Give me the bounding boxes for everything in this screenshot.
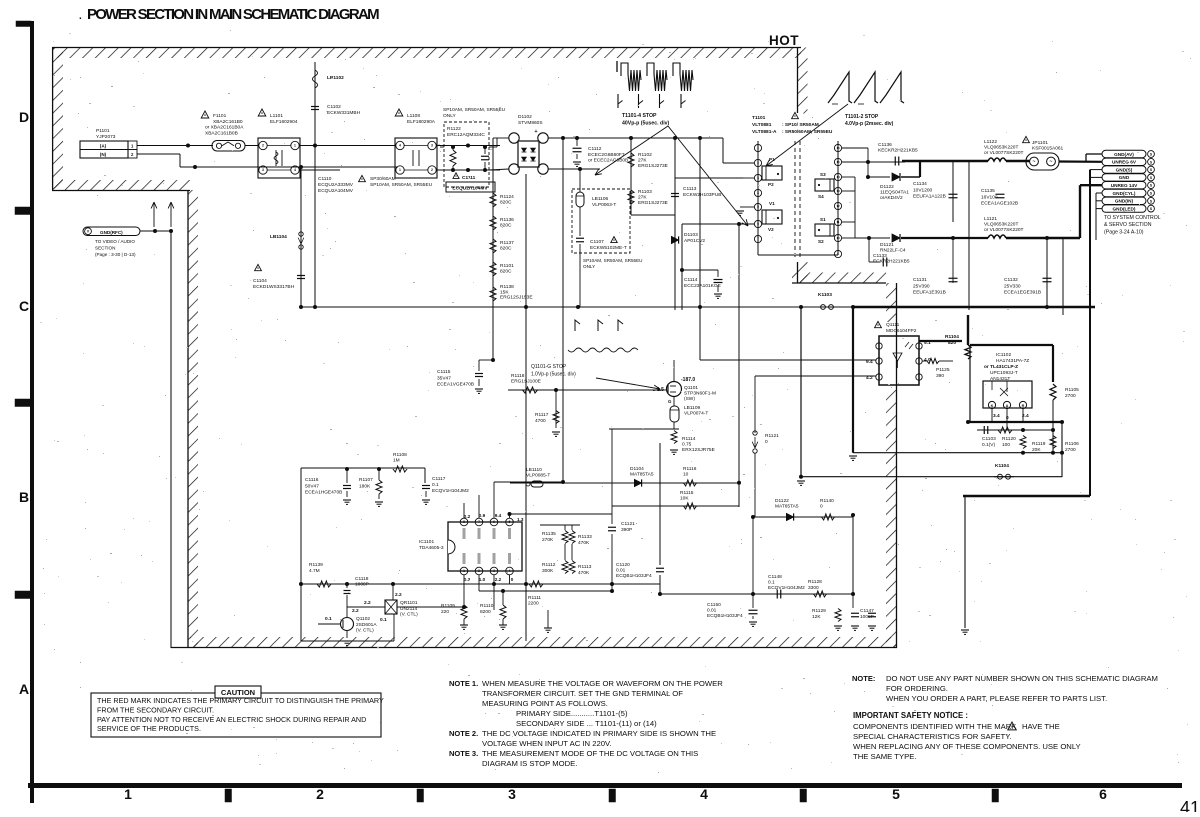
svg-text:270K: 270K	[542, 537, 554, 543]
svg-text:or TL431CLP-Z: or TL431CLP-Z	[984, 364, 1018, 370]
svg-text:C1135: C1135	[981, 188, 995, 194]
svg-text:ONLY: ONLY	[583, 264, 595, 269]
svg-text:UNREG 6V: UNREG 6V	[1112, 160, 1137, 165]
svg-text:ECQU2R104MV: ECQU2R104MV	[452, 186, 488, 192]
svg-text:UPC1093J-T: UPC1093J-T	[990, 370, 1018, 376]
svg-text:8: 8	[463, 520, 465, 524]
svg-text:R1124: R1124	[500, 194, 514, 200]
svg-text:NOTE:: NOTE:	[852, 674, 875, 683]
svg-text:820: 820	[948, 340, 956, 346]
svg-text:ECQB1H103JF4: ECQB1H103JF4	[616, 573, 652, 579]
svg-text:or VL0077SK220T: or VL0077SK220T	[984, 227, 1024, 233]
svg-text:16: 16	[836, 146, 840, 150]
svg-text:ELF1602904: ELF1602904	[270, 119, 298, 125]
svg-text:ECKW2H103PUB: ECKW2H103PUB	[683, 192, 721, 198]
svg-text:3: 3	[431, 144, 433, 148]
svg-text:COMPONENTS IDENTIFIED WITH THE: COMPONENTS IDENTIFIED WITH THE MARK	[853, 722, 1017, 731]
svg-text:2: 2	[431, 168, 433, 172]
svg-text:1: 1	[294, 144, 296, 148]
svg-text:1: 1	[463, 569, 465, 573]
svg-text:DIAGRAM IS STOP MODE.: DIAGRAM IS STOP MODE.	[482, 759, 577, 768]
svg-text:R1138: R1138	[500, 284, 514, 290]
svg-text:R1129: R1129	[812, 608, 826, 614]
svg-text:9.4: 9.4	[495, 513, 502, 518]
svg-text:R1133: R1133	[578, 534, 592, 540]
svg-text:7: 7	[757, 237, 759, 241]
svg-text:R1121: R1121	[765, 433, 779, 439]
svg-text:P1: P1	[769, 157, 775, 162]
svg-text:100: 100	[1002, 442, 1010, 448]
svg-text:(Page 3-24 A-10): (Page 3-24 A-10)	[1104, 229, 1144, 235]
svg-text:WHEN MEASURE THE VOLTAGE OR WA: WHEN MEASURE THE VOLTAGE OR WAVEFORM ON …	[482, 679, 723, 688]
svg-text:10: 10	[683, 472, 689, 478]
svg-text:3.4: 3.4	[993, 413, 1000, 419]
svg-text:GND(CYL): GND(CYL)	[1113, 191, 1136, 196]
svg-text:R1118: R1118	[511, 373, 525, 379]
svg-text:FOR ORDERING.: FOR ORDERING.	[886, 684, 948, 693]
svg-text:(N): (N)	[100, 152, 107, 157]
svg-text:R1139: R1139	[309, 562, 323, 568]
svg-text:JP1101: JP1101	[1032, 140, 1048, 146]
svg-text:8200: 8200	[480, 609, 491, 615]
svg-text:SP10AM, SR50AM, SR55EU: SP10AM, SR50AM, SR55EU	[443, 107, 506, 113]
svg-text:or VL0077SK220T: or VL0077SK220T	[984, 150, 1024, 156]
svg-text:(SW): (SW)	[684, 396, 695, 402]
svg-text:ERX12SJR75E: ERX12SJR75E	[682, 447, 715, 453]
svg-text:7: 7	[478, 520, 480, 524]
svg-text:4: 4	[294, 168, 296, 172]
svg-text:THE SAME TYPE.: THE SAME TYPE.	[853, 752, 917, 761]
svg-text:VLP0085-T: VLP0085-T	[526, 473, 550, 479]
svg-text:0.1(V): 0.1(V)	[982, 442, 995, 448]
svg-text:470K: 470K	[578, 540, 590, 546]
svg-text:6: 6	[493, 520, 495, 524]
svg-text:GND(S): GND(S)	[1116, 167, 1133, 172]
svg-text:TRANSFORMER CIRCUIT. SET TH: TRANSFORMER CIRCUIT. SET THE GND TERMINA…	[482, 689, 683, 698]
svg-text:RN22LF-C4: RN22LF-C4	[880, 248, 906, 254]
svg-text:PRIMARY SIDE...........T1101-(: PRIMARY SIDE...........T1101-(5)	[516, 709, 628, 718]
svg-text:0.01: 0.01	[616, 568, 626, 574]
svg-text:C1150: C1150	[707, 602, 721, 608]
svg-text:D1102: D1102	[518, 114, 532, 120]
svg-text:SP30/60AM: SP30/60AM	[370, 176, 396, 182]
svg-text:2200: 2200	[528, 601, 539, 607]
svg-text:15K: 15K	[500, 289, 509, 295]
svg-text:orAKD4V2: orAKD4V2	[880, 195, 903, 201]
svg-text:THE RED MARK INDICATES THE PRI: THE RED MARK INDICATES THE PRIMARY CIRCU…	[97, 696, 384, 705]
svg-text:27K: 27K	[638, 195, 647, 201]
svg-text:-187.0: -187.0	[681, 377, 695, 383]
svg-text:D1103: D1103	[684, 232, 698, 238]
svg-text:Q1101: Q1101	[684, 385, 698, 391]
svg-text:820C: 820C	[500, 200, 512, 206]
svg-text:ECEA1AGE102B: ECEA1AGE102B	[981, 201, 1018, 207]
svg-text:LB1106: LB1106	[592, 196, 609, 202]
svg-text:EEUFA1A122B: EEUFA1A122B	[913, 194, 946, 200]
svg-text:ECKW331MBH: ECKW331MBH	[327, 110, 361, 116]
svg-text:K1104: K1104	[995, 463, 1009, 469]
svg-text:P2: P2	[768, 182, 774, 187]
svg-text:AP01CV2: AP01CV2	[684, 238, 705, 244]
svg-text:S4: S4	[818, 194, 824, 199]
svg-text:4.0Vp-p (2msec. div): 4.0Vp-p (2msec. div)	[845, 121, 894, 127]
svg-text:Q1102: Q1102	[356, 616, 370, 622]
svg-text:27K: 27K	[638, 158, 647, 164]
svg-text:~: ~	[1033, 159, 1036, 165]
svg-text:ERG1SJ273E: ERG1SJ273E	[638, 163, 668, 169]
svg-text:1M: 1M	[393, 458, 400, 464]
svg-text:0.1: 0.1	[768, 579, 775, 585]
svg-text:POWER SECTION IN MAIN SCHEMATI: POWER SECTION IN MAIN SCHEMATIC DIAGRAM	[87, 6, 379, 23]
svg-text:0.1: 0.1	[325, 616, 332, 622]
svg-text:VLQ0653K220T: VLQ0653K220T	[984, 222, 1018, 228]
svg-text:EEUFA1E391B: EEUFA1E391B	[913, 290, 946, 296]
svg-text:C1112: C1112	[588, 146, 602, 152]
svg-text:ERG1SJ273E: ERG1SJ273E	[638, 200, 668, 206]
svg-text:2.2: 2.2	[495, 577, 502, 582]
svg-text:F1101: F1101	[213, 113, 227, 119]
svg-text:10V1200: 10V1200	[913, 187, 933, 193]
svg-text:ECEA1EGE391B: ECEA1EGE391B	[1004, 290, 1041, 296]
svg-text:ECQV1H104JM2: ECQV1H104JM2	[432, 488, 469, 494]
svg-text:R1128: R1128	[808, 579, 822, 585]
svg-text:A: A	[19, 681, 29, 697]
svg-text:C1133: C1133	[873, 253, 887, 259]
svg-text:R1111: R1111	[528, 595, 541, 601]
svg-text:L1122: L1122	[984, 139, 997, 145]
svg-text:SERVICE OF THE PRODUCTS.: SERVICE OF THE PRODUCTS.	[97, 724, 201, 733]
svg-text:R1119: R1119	[1032, 441, 1046, 447]
svg-text:A: A	[1006, 404, 1009, 408]
svg-text:VLP0063-T: VLP0063-T	[592, 202, 616, 208]
svg-text:LB1102: LB1102	[327, 75, 344, 81]
svg-text:XBA2C161B0B: XBA2C161B0B	[205, 130, 238, 136]
svg-text:LB1104: LB1104	[270, 234, 287, 240]
svg-text:4.7M: 4.7M	[309, 568, 320, 574]
svg-text:R1104: R1104	[945, 334, 959, 340]
svg-text:TO SYSTEM CONTROL: TO SYSTEM CONTROL	[1104, 215, 1161, 221]
svg-text:3: 3	[508, 786, 516, 802]
svg-text:1.0: 1.0	[479, 577, 486, 582]
svg-text:Q1111: Q1111	[886, 322, 900, 328]
svg-text:1.0Vp-p (5usec. div): 1.0Vp-p (5usec. div)	[531, 371, 576, 377]
svg-text:390P: 390P	[621, 527, 632, 533]
svg-text:ECEA1VGE470B: ECEA1VGE470B	[437, 382, 474, 388]
svg-text:MDC6104FP2: MDC6104FP2	[886, 328, 917, 334]
svg-text:C1117: C1117	[432, 476, 446, 482]
svg-text:ECEA1HGE470B: ECEA1HGE470B	[305, 490, 342, 496]
svg-text:3: 3	[493, 569, 495, 573]
svg-text:FROM THE SECONDARY CIRCUIT.: FROM THE SECONDARY CIRCUIT.	[97, 705, 214, 714]
svg-text:6: 6	[757, 222, 759, 226]
svg-text:ECKW5102ME-T: ECKW5102ME-T	[590, 245, 627, 251]
svg-text:1: 1	[124, 786, 132, 802]
svg-text:HAVE THE: HAVE THE	[1022, 722, 1060, 731]
svg-text:C1110: C1110	[318, 176, 332, 182]
svg-text:2SD601A: 2SD601A	[356, 622, 377, 628]
svg-text:R1116: R1116	[683, 466, 697, 472]
svg-text:C1132: C1132	[1004, 277, 1018, 283]
svg-text:LB1110: LB1110	[526, 467, 542, 473]
svg-text:2: 2	[316, 786, 324, 802]
svg-text:VLT0881: VLT0881	[752, 122, 772, 128]
svg-text:11: 11	[836, 220, 840, 224]
svg-text:3300: 3300	[808, 585, 819, 591]
svg-text:2: 2	[757, 161, 759, 165]
svg-text:2700: 2700	[1065, 447, 1076, 453]
svg-text:R1102: R1102	[638, 152, 652, 158]
svg-text:C1115: C1115	[437, 369, 451, 375]
svg-text:820C: 820C	[500, 223, 512, 229]
svg-text:: SR50/60AM, SR55EU: : SR50/60AM, SR55EU	[782, 129, 833, 135]
svg-text:ELF180290A: ELF180290A	[407, 119, 436, 125]
svg-text:2: 2	[262, 144, 264, 148]
svg-text:S3: S3	[820, 172, 826, 177]
svg-text:R: R	[1022, 404, 1025, 408]
svg-text:IC1102: IC1102	[996, 352, 1011, 358]
svg-text:C1107: C1107	[590, 239, 604, 245]
svg-text:IC1101: IC1101	[419, 539, 434, 545]
svg-text:K: K	[991, 404, 994, 408]
svg-text:TDA4605-3: TDA4605-3	[419, 545, 444, 551]
svg-text:+: +	[534, 129, 537, 135]
svg-text:0.9: 0.9	[479, 513, 486, 518]
svg-text:R1112: R1112	[542, 562, 556, 568]
svg-text:25V390: 25V390	[913, 283, 930, 289]
svg-text:C1114: C1114	[684, 277, 698, 283]
svg-text:C1102: C1102	[327, 104, 341, 110]
svg-text:2700: 2700	[1065, 393, 1076, 399]
svg-text:390: 390	[936, 373, 944, 379]
svg-text:5: 5	[509, 520, 511, 524]
svg-text:XBA2C161B0: XBA2C161B0	[213, 119, 243, 125]
svg-text:4: 4	[700, 786, 708, 802]
svg-text:R1120: R1120	[1002, 436, 1016, 442]
svg-text:C1121: C1121	[621, 521, 635, 527]
svg-text:R1101: R1101	[500, 263, 514, 269]
svg-text:or XBA2C161B0A: or XBA2C161B0A	[205, 125, 244, 131]
svg-text:R1122: R1122	[447, 126, 461, 132]
svg-text:GND: GND	[1119, 175, 1130, 180]
svg-text:2.2: 2.2	[352, 608, 359, 614]
svg-text:YJP2073: YJP2073	[96, 134, 116, 140]
svg-text:4: 4	[399, 144, 401, 148]
svg-text:STVM860S: STVM860S	[518, 120, 543, 126]
svg-text:MAT85TA5: MAT85TA5	[630, 472, 654, 478]
svg-text:R1110: R1110	[480, 603, 494, 609]
svg-text:1: 1	[399, 168, 401, 172]
svg-text:0: 0	[511, 577, 514, 582]
svg-text:THE MEASUREMENT MODE OF THE DC: THE MEASUREMENT MODE OF THE DC VOLTAGE O…	[482, 749, 698, 758]
svg-text:V2: V2	[768, 227, 774, 232]
svg-text:R1136: R1136	[500, 217, 514, 223]
svg-text:THE DC VOLTAGE INDICATED IN PR: THE DC VOLTAGE INDICATED IN PRIMARY SIDE…	[482, 729, 716, 738]
svg-text:GND(IN): GND(IN)	[1115, 199, 1134, 204]
svg-text:& SERVO SECTION: & SERVO SECTION	[1104, 222, 1152, 228]
svg-text:R1107: R1107	[359, 477, 373, 483]
svg-text:L1101: L1101	[270, 113, 283, 119]
svg-text:R1115: R1115	[680, 490, 694, 496]
svg-text:D1121: D1121	[880, 242, 894, 248]
svg-text:GND(RFC): GND(RFC)	[100, 230, 123, 235]
svg-text:SPECIAL CHARACTERISTICS FOR SA: SPECIAL CHARACTERISTICS FOR SAFETY.	[853, 732, 1011, 741]
svg-text:(A): (A)	[100, 144, 107, 149]
svg-text:0.3: 0.3	[464, 577, 471, 582]
svg-text:C1120: C1120	[616, 562, 630, 568]
svg-text:820C: 820C	[500, 246, 512, 252]
svg-text:R1103: R1103	[638, 189, 652, 195]
svg-text:220: 220	[441, 609, 449, 615]
svg-text:S1: S1	[820, 217, 826, 222]
svg-text:5: 5	[892, 786, 900, 802]
svg-text:14: 14	[836, 175, 840, 179]
svg-text:ERG12SJ153E: ERG12SJ153E	[500, 295, 533, 301]
svg-text:ECQB1H103JF4: ECQB1H103JF4	[707, 613, 743, 619]
svg-text:3: 3	[262, 168, 264, 172]
svg-text:WHEN REPLACING ANY OF THESE CO: WHEN REPLACING ANY OF THESE COMPONENTS. …	[853, 742, 1081, 751]
svg-text:1.3: 1.3	[517, 517, 524, 522]
svg-text:ECEC2G6B60F7: ECEC2G6B60F7	[588, 152, 625, 158]
svg-text:180K: 180K	[359, 483, 371, 489]
svg-text:1: 1	[757, 146, 759, 150]
svg-text:MAT65TA5: MAT65TA5	[775, 504, 799, 510]
svg-text:PAY ATTENTION NOT TO RECEIVE A: PAY ATTENTION NOT TO RECEIVE AN ELECTRIC…	[97, 715, 366, 724]
svg-text:WHEN YOU ORDER A PART, PLEASE: WHEN YOU ORDER A PART, PLEASE REFER TO P…	[886, 694, 1107, 703]
svg-text:ECQV1H104JM2: ECQV1H104JM2	[768, 585, 805, 591]
svg-text:G: G	[668, 399, 672, 404]
svg-text:R1140: R1140	[820, 498, 834, 504]
svg-text:IMPORTANT SAFETY NOTICE :: IMPORTANT SAFETY NOTICE :	[853, 711, 968, 720]
svg-text:C1136: C1136	[878, 142, 892, 148]
svg-text:0.75: 0.75	[682, 442, 692, 448]
svg-text:R1113: R1113	[578, 564, 592, 570]
svg-text:P1101: P1101	[96, 128, 110, 134]
svg-text:3: 3	[757, 176, 759, 180]
svg-text:12: 12	[836, 204, 840, 208]
svg-text:K1103: K1103	[818, 292, 832, 298]
svg-text:2.2: 2.2	[364, 600, 371, 606]
svg-text:4: 4	[757, 191, 759, 195]
svg-text:GND(LED): GND(LED)	[1113, 206, 1136, 211]
svg-text:V1: V1	[769, 201, 775, 206]
svg-text:L1121: L1121	[984, 216, 997, 222]
svg-text:C1134: C1134	[913, 181, 927, 187]
svg-text:C1148: C1148	[768, 574, 782, 580]
svg-text:4: 4	[509, 569, 511, 573]
svg-text:D1122: D1122	[880, 184, 894, 190]
svg-text:SECONDARY SIDE ... T1101-(11): SECONDARY SIDE ... T1101-(11) or (14)	[516, 719, 657, 728]
svg-text:25V330: 25V330	[1004, 283, 1021, 289]
svg-text:12K: 12K	[812, 614, 821, 620]
svg-text:20K: 20K	[1032, 447, 1041, 453]
svg-text:D1104: D1104	[630, 466, 644, 472]
svg-text:13: 13	[836, 189, 840, 193]
svg-text:R1105: R1105	[1065, 387, 1079, 393]
svg-text:C1118: C1118	[355, 576, 369, 582]
svg-text:ECKD1WS3317BH: ECKD1WS3317BH	[253, 284, 295, 290]
svg-text:ECQU2A104MV: ECQU2A104MV	[318, 188, 354, 194]
svg-text:P1125: P1125	[936, 367, 950, 373]
svg-text:5: 5	[757, 205, 759, 209]
svg-text:0.1: 0.1	[380, 617, 387, 623]
svg-text:DO NOT USE ANY PART NUMBER SHO: DO NOT USE ANY PART NUMBER SHOWN ON THIS…	[886, 674, 1158, 683]
svg-text:L1108: L1108	[407, 113, 420, 119]
svg-text:0.1: 0.1	[432, 482, 439, 488]
svg-text:.: .	[79, 11, 82, 22]
svg-text:KECKR2H221KB5: KECKR2H221KB5	[878, 148, 918, 154]
svg-text:NOTE 2.: NOTE 2.	[449, 729, 478, 738]
svg-text:S2: S2	[818, 239, 824, 244]
svg-text:VLQ0653K220T: VLQ0653K220T	[984, 145, 1018, 151]
svg-text:GND(AV): GND(AV)	[1114, 152, 1134, 157]
svg-text:SP10AM, SR50AM, SR55EU: SP10AM, SR50AM, SR55EU	[583, 258, 643, 263]
svg-text:41: 41	[1180, 798, 1200, 812]
svg-text:(V. CTL): (V. CTL)	[400, 612, 418, 618]
svg-text:B: B	[19, 489, 29, 505]
svg-text:Q1101-G STOP: Q1101-G STOP	[531, 364, 567, 370]
svg-text:R1135: R1135	[542, 531, 556, 537]
svg-text:ERC12AQM334C: ERC12AQM334C	[447, 132, 485, 138]
svg-text:50V47: 50V47	[305, 483, 319, 489]
svg-text:MEASURING POINT AS FOLLOWS.: MEASURING POINT AS FOLLOWS.	[482, 699, 608, 708]
svg-text:VLP0074-T: VLP0074-T	[684, 411, 708, 417]
svg-text:R1114: R1114	[682, 436, 696, 442]
svg-text:0: 0	[820, 504, 823, 510]
svg-text:UNREG 14V: UNREG 14V	[1111, 183, 1138, 188]
svg-text:STP3N60F1-M: STP3N60F1-M	[684, 391, 716, 397]
svg-text:40Vp-p (5usec. div): 40Vp-p (5usec. div)	[622, 120, 670, 126]
svg-text:0: 0	[1006, 415, 1009, 421]
svg-text:0.01: 0.01	[707, 608, 717, 614]
svg-text:VOLTAGE WHEN INPUT AC IN 220V.: VOLTAGE WHEN INPUT AC IN 220V.	[482, 739, 612, 748]
svg-text:R1117: R1117	[535, 412, 549, 418]
svg-text:ECKR2H221KB5: ECKR2H221KB5	[873, 259, 910, 265]
svg-text:HA17431PA-7Z: HA17431PA-7Z	[996, 358, 1029, 364]
svg-text:~: ~	[1050, 159, 1053, 165]
svg-text:T1101-4 STOP: T1101-4 STOP	[622, 113, 657, 119]
svg-text:470K: 470K	[578, 570, 590, 576]
svg-text:ERG1SJ100E: ERG1SJ100E	[511, 379, 541, 385]
svg-text:R1137: R1137	[500, 240, 514, 246]
svg-text:R1108: R1108	[393, 452, 407, 458]
svg-text:1000P: 1000P	[355, 582, 369, 588]
svg-text:QR1101: QR1101	[400, 600, 418, 606]
svg-text:C1116: C1116	[305, 477, 319, 483]
svg-text:16V100: 16V100	[981, 194, 998, 200]
svg-text:820C: 820C	[500, 269, 512, 275]
svg-text:T1101: T1101	[752, 115, 766, 121]
svg-text:C1103: C1103	[982, 436, 996, 442]
svg-text:SP10AM, SR50AM, SR55EU: SP10AM, SR50AM, SR55EU	[370, 182, 433, 188]
svg-text:SECTION: SECTION	[95, 246, 115, 251]
svg-text:C1147: C1147	[860, 608, 874, 614]
svg-text:(V. CTL): (V. CTL)	[356, 628, 374, 634]
svg-text:0: 0	[765, 439, 768, 445]
svg-text:LB1109: LB1109	[684, 405, 701, 411]
svg-text:0.2: 0.2	[464, 514, 471, 519]
svg-text:35V47: 35V47	[437, 375, 451, 381]
svg-text:2: 2	[478, 569, 480, 573]
svg-text:(Page : 3-30 | D-13): (Page : 3-30 | D-13)	[95, 252, 136, 257]
svg-text:R1106: R1106	[1065, 441, 1079, 447]
svg-text:10K: 10K	[680, 496, 689, 502]
svg-text:or ECEC2AG6B0B: or ECEC2AG6B0B	[588, 158, 628, 164]
svg-text:TO VIDEO / AUDIO: TO VIDEO / AUDIO	[95, 239, 135, 244]
svg-text:C1113: C1113	[683, 186, 697, 192]
svg-text:C: C	[19, 298, 29, 314]
svg-text:ONLY: ONLY	[443, 113, 457, 119]
svg-text:6: 6	[1099, 786, 1107, 802]
